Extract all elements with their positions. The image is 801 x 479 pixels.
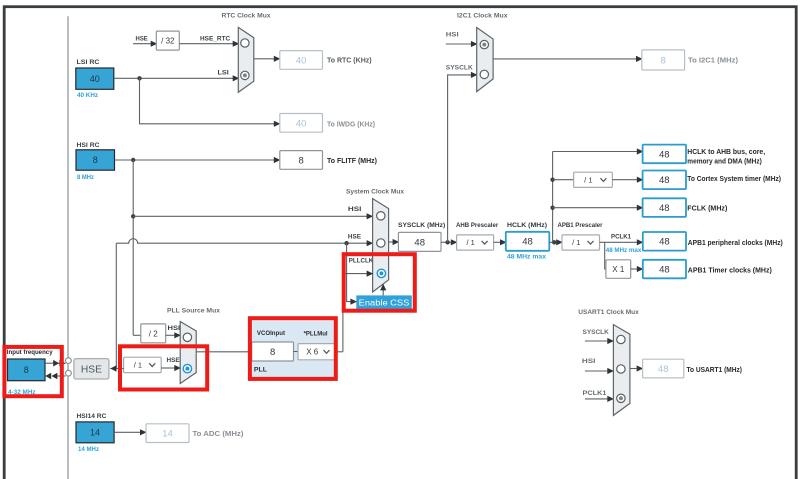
RTC mux bbox=[238, 27, 254, 92]
To I2C1 value box bbox=[642, 50, 685, 70]
wire HSE to PREDIV with left arrow bbox=[110, 365, 123, 372]
AHB prescaler dropdown bbox=[457, 235, 494, 250]
HCLK AHB value box bbox=[643, 145, 686, 164]
svg-text:14 MHz: 14 MHz bbox=[78, 446, 99, 453]
PLL HSE label bbox=[167, 357, 181, 364]
chip boundary line bbox=[67, 16, 69, 479]
wire to cortex prescaler bbox=[553, 179, 574, 181]
PLL label bbox=[254, 367, 267, 374]
red highlight PLLCLK Enable CSS bbox=[344, 254, 415, 311]
HSI14 source box bbox=[76, 422, 114, 443]
svg-text:I2C1 Clock Mux: I2C1 Clock Mux bbox=[457, 13, 508, 20]
sysmux radio PLLCLK selected bbox=[377, 269, 385, 277]
HSI RC freq label bbox=[77, 174, 94, 181]
svg-text:PLLCLK: PLLCLK bbox=[349, 257, 373, 264]
svg-text:HSE_RTC: HSE_RTC bbox=[200, 35, 230, 42]
HSE riser wire bbox=[115, 243, 117, 368]
To IWDG value box bbox=[280, 114, 323, 133]
VCOInput header bbox=[257, 330, 286, 337]
sysmux radio HSE bbox=[377, 239, 385, 247]
wire APB1 to periph box bbox=[600, 239, 644, 245]
svg-text:SYSCLK: SYSCLK bbox=[446, 64, 473, 71]
svg-text:USART1 Clock Mux: USART1 Clock Mux bbox=[578, 309, 639, 316]
svg-text:14: 14 bbox=[162, 429, 173, 440]
PLLMul dropdown X6 bbox=[298, 344, 336, 360]
SYSCLK value box bbox=[398, 232, 441, 251]
To FLITF label bbox=[327, 158, 377, 165]
svg-text:/ 1: / 1 bbox=[466, 238, 474, 247]
I2C1 SYSCLK label bbox=[446, 64, 473, 71]
svg-text:To USART1 (MHz): To USART1 (MHz) bbox=[687, 367, 743, 374]
wire PCLK1 stub bbox=[585, 396, 614, 402]
svg-text:To RTC (KHz): To RTC (KHz) bbox=[327, 58, 372, 65]
HCLK max label bbox=[507, 253, 546, 260]
svg-text:APB1 peripheral clocks (MHz): APB1 peripheral clocks (MHz) bbox=[688, 240, 783, 247]
svg-text:To Cortex System timer (MHz): To Cortex System timer (MHz) bbox=[687, 176, 781, 183]
LSI RC freq label bbox=[77, 92, 98, 99]
To USART1 value box bbox=[643, 359, 684, 378]
pin OSC_OUT bbox=[66, 370, 72, 376]
USART1 HSI label bbox=[582, 358, 596, 365]
pin OSC_IN bbox=[66, 358, 72, 364]
wire /32 to RTC mux bbox=[179, 41, 239, 47]
svg-text:8: 8 bbox=[93, 155, 98, 165]
HSI riser wire bbox=[132, 160, 134, 335]
svg-text:Enable CSS: Enable CSS bbox=[359, 297, 410, 307]
HSE oscillator box bbox=[74, 359, 109, 379]
wire X6 out bbox=[336, 351, 343, 353]
APB1 prescaler dropdown bbox=[562, 235, 600, 250]
wire PLL mux to VCO bbox=[196, 351, 252, 353]
wire HSI to system mux bbox=[133, 213, 373, 219]
HCLK AHB label bbox=[687, 149, 765, 166]
System Clock Mux title bbox=[346, 189, 404, 196]
PCLK1 max label bbox=[606, 247, 642, 254]
I2C1 radio HSI selected bbox=[480, 40, 488, 48]
svg-text:40: 40 bbox=[296, 55, 307, 66]
svg-text:HSI: HSI bbox=[348, 206, 362, 213]
cortex label bbox=[687, 176, 781, 183]
AHB Prescaler header bbox=[456, 222, 499, 229]
wire HCLK to APB1 bbox=[549, 239, 563, 245]
APB1 timer value box bbox=[643, 260, 686, 279]
FCLK label bbox=[687, 205, 727, 212]
svg-text:HSI RC: HSI RC bbox=[77, 142, 100, 149]
wire PLL to sysmux bbox=[343, 271, 373, 352]
wire LSI to RTC mux bbox=[114, 75, 240, 81]
svg-text:APB1 Prescaler: APB1 Prescaler bbox=[558, 222, 603, 229]
PLL HSI label bbox=[168, 325, 181, 332]
svg-text:HSE: HSE bbox=[136, 35, 149, 42]
svg-text:LSI RC: LSI RC bbox=[77, 59, 100, 66]
svg-text:HSI: HSI bbox=[582, 358, 596, 365]
HSI input label bbox=[348, 206, 362, 213]
To USART1 label bbox=[687, 367, 743, 374]
junction HSE to CSS bbox=[344, 241, 348, 245]
svg-text:/ 1: / 1 bbox=[134, 361, 142, 370]
junction HSI bbox=[131, 158, 135, 162]
PREDIV dropdown /1 bbox=[124, 357, 162, 372]
HSI RC source box bbox=[76, 150, 115, 170]
USART1 radio HSI bbox=[617, 365, 625, 373]
wire /2 to PLL mux bbox=[166, 332, 181, 338]
junction HCLK riser bbox=[552, 240, 556, 244]
junction LSI bbox=[137, 76, 141, 80]
svg-text:VCOInput: VCOInput bbox=[257, 330, 286, 337]
divider /2 bbox=[141, 324, 166, 343]
wire pin to input bbox=[45, 373, 65, 380]
sysmux radio HSI bbox=[377, 212, 385, 220]
divider /32 bbox=[156, 31, 179, 50]
svg-text:14: 14 bbox=[90, 428, 100, 438]
wire HSI stub usart bbox=[585, 368, 614, 374]
wire sysmux out bbox=[389, 239, 400, 245]
PLLCLK input label bbox=[349, 257, 373, 264]
svg-text:8: 8 bbox=[661, 55, 666, 66]
RTC mux radio HSE_RTC bbox=[241, 39, 249, 47]
RTC mux radio LSI selected bbox=[241, 71, 249, 79]
svg-text:SYSCLK: SYSCLK bbox=[583, 329, 609, 336]
junction SYSCLK riser bbox=[445, 240, 449, 244]
To RTC label bbox=[327, 58, 372, 65]
svg-text:HSE: HSE bbox=[348, 234, 362, 241]
VCOInput value box bbox=[252, 342, 294, 361]
APB1 peripheral label bbox=[688, 240, 783, 247]
HCLK riser wire bbox=[552, 152, 554, 243]
LSI label bbox=[218, 70, 229, 77]
input range label bbox=[8, 389, 36, 396]
cortex prescaler dropdown bbox=[574, 172, 613, 187]
svg-text:48 MHz max: 48 MHz max bbox=[507, 253, 546, 260]
To ADC label bbox=[193, 431, 244, 438]
svg-text:48: 48 bbox=[659, 175, 670, 186]
PLL panel bbox=[252, 320, 334, 377]
svg-text:/ 32: / 32 bbox=[161, 36, 175, 45]
wire cortex to box bbox=[612, 177, 643, 183]
svg-text:/ 2: / 2 bbox=[149, 329, 158, 338]
wire I2C1 out bbox=[493, 56, 642, 62]
svg-text:To IWDG (KHz): To IWDG (KHz) bbox=[327, 122, 375, 129]
svg-text:AHB Prescaler: AHB Prescaler bbox=[456, 222, 499, 229]
wire to FCLK box bbox=[553, 205, 644, 211]
red highlight input frequency bbox=[4, 347, 61, 396]
svg-text:48: 48 bbox=[414, 237, 425, 248]
svg-text:48: 48 bbox=[659, 237, 670, 248]
svg-text:X 6: X 6 bbox=[306, 348, 319, 357]
wire USART1 out bbox=[630, 365, 643, 371]
svg-text:LSI: LSI bbox=[218, 70, 229, 77]
wire /1 to PLL mux bbox=[161, 365, 181, 371]
svg-text:48: 48 bbox=[659, 203, 670, 214]
svg-text:X 1: X 1 bbox=[612, 265, 625, 274]
svg-text:memory and DMA (MHz): memory and DMA (MHz) bbox=[687, 159, 762, 166]
USART1 Clock Mux title bbox=[578, 309, 639, 316]
wire SYSCLK to AHB bbox=[441, 239, 457, 245]
junction fclk bbox=[550, 206, 554, 210]
X1 multiplier box bbox=[606, 260, 631, 279]
wire HSI to FLITF bbox=[115, 157, 281, 163]
svg-text:To ADC (MHz): To ADC (MHz) bbox=[193, 431, 244, 438]
wire X1 to timer box bbox=[631, 266, 644, 272]
I2C1 Clock Mux title bbox=[457, 13, 508, 20]
Input frequency label bbox=[7, 349, 53, 356]
wire input to pin bbox=[45, 360, 66, 367]
SYSCLK header bbox=[398, 222, 445, 229]
PLLMul header bbox=[304, 331, 328, 338]
To RTC value box bbox=[280, 51, 323, 70]
PLL mux radio HSI bbox=[183, 333, 191, 341]
svg-text:*PLLMul: *PLLMul bbox=[304, 331, 328, 338]
svg-text:48: 48 bbox=[659, 264, 670, 275]
svg-text:40: 40 bbox=[296, 118, 307, 129]
To I2C1 label bbox=[688, 58, 738, 65]
svg-text:8: 8 bbox=[24, 365, 29, 375]
I2C1 HSI label bbox=[446, 32, 459, 39]
red highlight PLL bbox=[250, 318, 336, 379]
wire HSI stub to I2C1 mux bbox=[446, 41, 478, 47]
svg-text:48: 48 bbox=[522, 237, 533, 248]
svg-text:HCLK to AHB bus, core,: HCLK to AHB bus, core, bbox=[687, 149, 765, 156]
svg-text:8 MHz: 8 MHz bbox=[77, 174, 94, 181]
cortex value box bbox=[643, 171, 686, 190]
USART1 mux bbox=[613, 325, 630, 416]
wire PCLK1 to X1 bbox=[605, 242, 607, 269]
PLL source mux bbox=[180, 322, 196, 384]
HSE stub label bbox=[136, 35, 149, 42]
I2C1 mux bbox=[477, 28, 493, 92]
svg-text:/ 1: / 1 bbox=[584, 176, 592, 185]
HSI14 RC label bbox=[77, 413, 107, 420]
svg-text:FCLK (MHz): FCLK (MHz) bbox=[687, 205, 727, 212]
HCLK value box bbox=[506, 232, 550, 251]
wire HSI14 to ADC bbox=[114, 429, 147, 435]
svg-text:PLL Source Mux: PLL Source Mux bbox=[167, 308, 220, 315]
APB1 timer label bbox=[688, 267, 772, 274]
svg-text:Input frequency: Input frequency bbox=[7, 349, 53, 356]
svg-text:48: 48 bbox=[659, 149, 670, 160]
svg-text:PCLK1: PCLK1 bbox=[583, 390, 607, 397]
HSI14 freq label bbox=[78, 446, 99, 453]
I2C1 radio SYSCLK bbox=[480, 70, 488, 78]
svg-text:HSI14 RC: HSI14 RC bbox=[77, 413, 107, 420]
wire HSE to system mux with hop bbox=[116, 239, 373, 247]
svg-text:40 KHz: 40 KHz bbox=[77, 92, 98, 99]
To FLITF value box bbox=[280, 151, 323, 170]
wire HSE stub to /32 bbox=[133, 41, 157, 47]
red highlight PREDIV and HSE mux bbox=[120, 346, 207, 389]
wire CSS to mux up arrow bbox=[380, 284, 386, 296]
svg-text:PCLK1: PCLK1 bbox=[611, 234, 631, 241]
svg-text:/ 1: / 1 bbox=[572, 238, 580, 247]
USART1 PCLK1 label bbox=[583, 390, 607, 397]
FCLK value box bbox=[643, 198, 686, 217]
svg-text:8: 8 bbox=[270, 347, 275, 358]
LSI RC source box bbox=[76, 68, 114, 89]
HSI RC label bbox=[77, 142, 100, 149]
wire HSE to Enable CSS bbox=[347, 243, 357, 305]
svg-text:HSI: HSI bbox=[446, 32, 459, 39]
junction cortex bbox=[550, 178, 554, 182]
To ADC value box bbox=[146, 424, 189, 443]
HSE input label bbox=[348, 234, 362, 241]
USART1 SYSCLK label bbox=[583, 329, 609, 336]
Enable CSS button bbox=[356, 295, 412, 309]
HSE_RTC label bbox=[200, 35, 230, 42]
input frequency source box bbox=[8, 359, 46, 381]
svg-text:48 MHz max: 48 MHz max bbox=[606, 247, 642, 254]
wire AHB to HCLK bbox=[494, 239, 507, 245]
svg-text:SYSCLK (MHz): SYSCLK (MHz) bbox=[398, 222, 445, 229]
wire to HCLK AHB box bbox=[553, 148, 644, 154]
APB1 Prescaler header bbox=[558, 222, 603, 229]
svg-text:HSE: HSE bbox=[167, 357, 181, 364]
svg-text:APB1 Timer clocks (MHz): APB1 Timer clocks (MHz) bbox=[688, 267, 772, 274]
RTC Clock Mux title bbox=[222, 13, 271, 20]
USART1 radio PCLK1 selected bbox=[617, 394, 625, 402]
wire HSI riser to /2 bbox=[133, 334, 141, 336]
svg-text:To I2C1 (MHz): To I2C1 (MHz) bbox=[688, 58, 738, 65]
svg-text:8: 8 bbox=[299, 155, 304, 166]
junction HSI to sysmux bbox=[131, 214, 135, 218]
wire LSI to IWDG bbox=[140, 78, 281, 127]
svg-text:RTC Clock Mux: RTC Clock Mux bbox=[222, 13, 271, 20]
wire SYSCLK stub bbox=[585, 338, 614, 344]
wire RTC mux out bbox=[254, 56, 281, 62]
PLL mux radio HSE selected bbox=[183, 364, 191, 372]
system clock mux bbox=[373, 199, 389, 292]
PLL Source Mux title bbox=[167, 308, 220, 315]
PCLK1 label bbox=[611, 234, 631, 241]
svg-text:48: 48 bbox=[658, 364, 669, 375]
svg-text:HSE: HSE bbox=[81, 363, 102, 375]
svg-text:HSI: HSI bbox=[168, 325, 181, 332]
svg-text:HCLK (MHz): HCLK (MHz) bbox=[507, 222, 547, 229]
HCLK header bbox=[507, 222, 547, 229]
wire VCO to PLLMul bbox=[294, 351, 299, 353]
svg-text:System Clock Mux: System Clock Mux bbox=[346, 189, 404, 196]
svg-text:40: 40 bbox=[90, 74, 100, 84]
svg-text:PLL: PLL bbox=[254, 367, 267, 374]
SYSCLK riser to I2C1 bbox=[448, 72, 478, 243]
APB1 peripheral value box bbox=[643, 232, 686, 251]
svg-text:To FLITF (MHz): To FLITF (MHz) bbox=[327, 158, 377, 165]
To IWDG label bbox=[327, 122, 375, 129]
USART1 radio SYSCLK bbox=[617, 335, 625, 343]
LSI RC label bbox=[77, 59, 100, 66]
